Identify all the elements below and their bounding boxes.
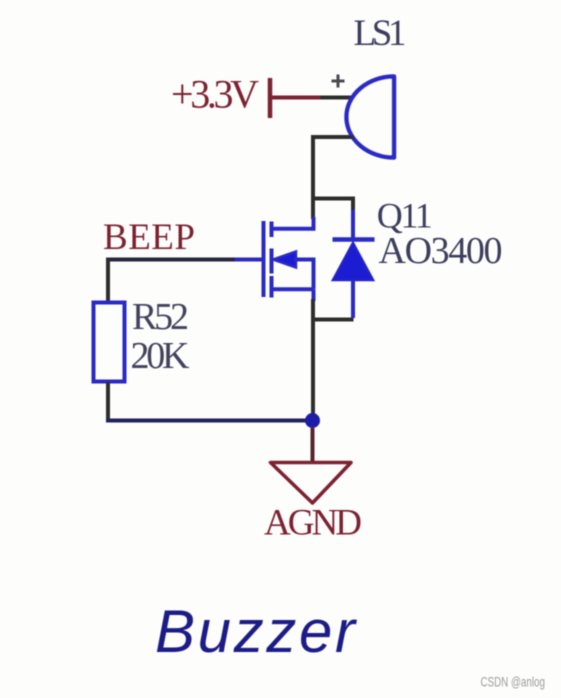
diode D (body diode of Q11)	[333, 210, 375, 318]
svg-text:AO3400: AO3400	[379, 230, 503, 272]
ground AGND	[271, 463, 352, 504]
plus polarity mark	[332, 75, 345, 88]
wire	[311, 299, 315, 418]
node junction	[305, 413, 320, 428]
svg-text:CSDN @anlog: CSDN @anlog	[481, 674, 545, 690]
wire	[106, 382, 110, 421]
svg-text:R52: R52	[132, 296, 189, 338]
power +3.3V	[171, 72, 322, 119]
gate lead	[233, 258, 264, 262]
svg-text:Buzzer: Buzzer	[155, 598, 357, 665]
channel top segment	[270, 222, 274, 238]
channel bottom segment	[270, 276, 274, 298]
channel middle segment	[270, 249, 274, 274]
body arrow	[273, 252, 296, 268]
source stub	[272, 287, 314, 291]
source lead	[294, 260, 314, 290]
svg-text:+3.3V: +3.3V	[171, 72, 259, 117]
source down lead	[312, 289, 316, 301]
wire	[311, 318, 354, 322]
wire	[311, 199, 353, 213]
wire	[108, 258, 235, 262]
wire	[106, 258, 110, 304]
svg-text:AGND: AGND	[264, 503, 362, 544]
svg-text:20K: 20K	[131, 335, 191, 377]
wire	[106, 419, 313, 423]
buzzer LS1	[347, 77, 394, 158]
transistor Q11	[233, 217, 314, 301]
svg-text:BEEP: BEEP	[103, 217, 195, 258]
gate bar	[262, 221, 266, 297]
wire	[313, 137, 354, 219]
svg-text:LS1: LS1	[354, 13, 407, 54]
wire	[311, 427, 315, 462]
drain stub	[272, 217, 314, 229]
wire	[320, 96, 353, 100]
resistor R52	[94, 303, 125, 382]
